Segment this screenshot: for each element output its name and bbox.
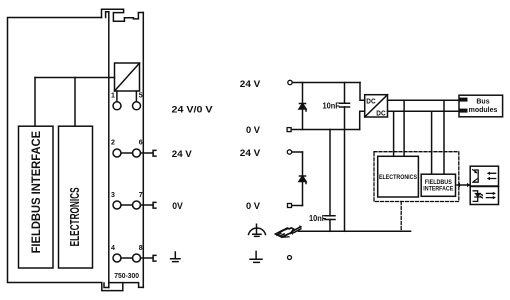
wire drop to electronics box bbox=[74, 78, 76, 127]
bus pin stub top bbox=[459, 98, 468, 102]
supply terminal square 0V second bbox=[288, 204, 292, 208]
drop wire to electronics 1 bbox=[393, 111, 395, 156]
wire row4 bbox=[121, 257, 153, 259]
DC/DC converter U2 bbox=[365, 95, 388, 117]
functional earth symbol (arc) bbox=[249, 224, 266, 236]
TVS diode D2 symbol bbox=[299, 176, 306, 184]
dashed isolation box bbox=[374, 152, 459, 202]
earth rail wire bbox=[299, 230, 411, 232]
svg-text:10nF: 10nF bbox=[309, 214, 326, 223]
TVS diode D1 symbol bbox=[299, 104, 306, 112]
bus modules box bbox=[459, 95, 503, 117]
DIN rail symbol bbox=[276, 225, 302, 237]
fieldbus interface box (right) bbox=[421, 174, 455, 196]
capacitor C2 plates bbox=[325, 216, 335, 220]
svg-text:7: 7 bbox=[139, 192, 143, 199]
wire 24V top bbox=[293, 82, 360, 84]
electronics box (right) bbox=[378, 156, 419, 197]
contact circle 7 bbox=[133, 201, 141, 209]
drop wire to electronics 2 bbox=[403, 100, 405, 156]
wire 0V second bbox=[292, 205, 303, 207]
capacitor C2 wire lower bbox=[329, 220, 331, 232]
double arrow fieldbus to opto bbox=[457, 184, 470, 186]
contact circle 8 bbox=[133, 254, 141, 262]
svg-text:0V: 0V bbox=[172, 201, 183, 211]
svg-text:24 V: 24 V bbox=[172, 149, 193, 159]
svg-text:8: 8 bbox=[139, 245, 143, 252]
contact circle 2 bbox=[113, 149, 121, 157]
wire drop to fieldbus interface box bbox=[34, 78, 36, 127]
contact circle 5 bbox=[133, 102, 141, 110]
opto arrow left bbox=[489, 173, 496, 178]
svg-text:DC: DC bbox=[376, 108, 386, 117]
wire to DC/DC bottom input bbox=[360, 111, 365, 129]
clamp arc row3 bbox=[153, 202, 156, 208]
svg-text:24 V: 24 V bbox=[240, 148, 261, 158]
opto box bottom bbox=[470, 187, 498, 205]
svg-text:2: 2 bbox=[111, 140, 115, 147]
TVS diode D1 vertical wire bbox=[302, 83, 304, 130]
capacitor C1 wire lower to earth rail bbox=[344, 107, 346, 231]
svg-text:5: 5 bbox=[139, 93, 143, 100]
capacitor C1 wire upper bbox=[344, 83, 346, 104]
electronics box (left) bbox=[59, 126, 93, 268]
wire 0V top bbox=[291, 129, 359, 131]
svg-text:Bus: Bus bbox=[476, 99, 489, 106]
contact circle 3 bbox=[113, 201, 121, 209]
supply terminal square 0V bbox=[287, 128, 291, 132]
svg-text:24 V: 24 V bbox=[240, 79, 261, 89]
svg-text:FIELDBUS: FIELDBUS bbox=[425, 180, 452, 186]
wire square to contact 1 bbox=[116, 91, 118, 102]
drop wire to fieldbus interface 2 bbox=[443, 100, 445, 174]
svg-text:ELECTRONICS: ELECTRONICS bbox=[68, 187, 82, 246]
module left edge foot bbox=[104, 283, 109, 288]
contact circle 6 bbox=[133, 149, 141, 157]
DC/DC output top wire bbox=[388, 99, 462, 101]
svg-text:24 V/0 V: 24 V/0 V bbox=[172, 105, 214, 115]
module left edge hook bbox=[106, 12, 109, 18]
capacitor C1 plates bbox=[340, 103, 350, 107]
opto arrow right bbox=[486, 193, 493, 197]
module top profile bbox=[102, 9, 144, 21]
earth symbol row4 bbox=[171, 252, 180, 262]
supply terminal circle 24V second bbox=[287, 150, 291, 154]
clamp arc row2 bbox=[153, 150, 156, 156]
power supply square U1 bbox=[115, 63, 140, 91]
wire to DC/DC top input bbox=[360, 83, 365, 101]
opto receiver symbol bbox=[475, 170, 478, 182]
svg-text:0 V: 0 V bbox=[246, 125, 261, 135]
svg-text:4: 4 bbox=[111, 245, 115, 252]
svg-text:FIELDBUS INTERFACE: FIELDBUS INTERFACE bbox=[29, 131, 43, 254]
TVS diode D2 vertical wire bbox=[302, 152, 304, 206]
wire 24V second bbox=[292, 151, 302, 153]
contact circle 4 bbox=[113, 254, 121, 262]
DC/DC diagonal bbox=[365, 95, 388, 117]
svg-text:10nF: 10nF bbox=[323, 102, 340, 111]
contact circle 1 bbox=[113, 102, 121, 110]
svg-text:ELECTRONICS: ELECTRONICS bbox=[379, 174, 418, 181]
DC/DC output bottom wire bbox=[388, 110, 462, 112]
svg-text:750-300: 750-300 bbox=[114, 271, 139, 280]
opto emitter symbol bbox=[473, 191, 478, 202]
svg-text:modules: modules bbox=[469, 107, 498, 114]
wire row2 bbox=[121, 152, 153, 154]
svg-text:1: 1 bbox=[111, 93, 115, 100]
svg-text:INTERFACE: INTERFACE bbox=[423, 186, 453, 192]
clamp arc row4 bbox=[153, 255, 156, 261]
module bottom edge bbox=[109, 283, 144, 288]
wire square to contact 5 bbox=[135, 91, 137, 102]
svg-text:DC: DC bbox=[366, 97, 376, 106]
small circle legend bbox=[288, 256, 292, 260]
module right edge bbox=[142, 13, 144, 288]
supply terminal circle 24V bbox=[288, 80, 292, 84]
module left edge bbox=[108, 12, 110, 288]
wire from power symbol to internal boxes bbox=[35, 77, 115, 79]
wire row3 bbox=[121, 204, 153, 206]
capacitor C2 wire from 0V bbox=[329, 130, 331, 216]
svg-text:3: 3 bbox=[111, 192, 115, 199]
power supply square diagonal bbox=[115, 63, 140, 91]
svg-text:0 V: 0 V bbox=[246, 201, 261, 211]
device outline outer loop bbox=[8, 18, 123, 291]
dashed wire from isolation box to earth rail bbox=[400, 202, 402, 232]
opto box top bbox=[470, 166, 498, 186]
bus pin stub bottom bbox=[459, 109, 468, 113]
earth symbol legend bbox=[250, 251, 262, 262]
fieldbus interface box (left) bbox=[19, 126, 54, 268]
svg-text:6: 6 bbox=[139, 140, 143, 147]
drop wire to fieldbus interface 1 bbox=[431, 111, 433, 174]
